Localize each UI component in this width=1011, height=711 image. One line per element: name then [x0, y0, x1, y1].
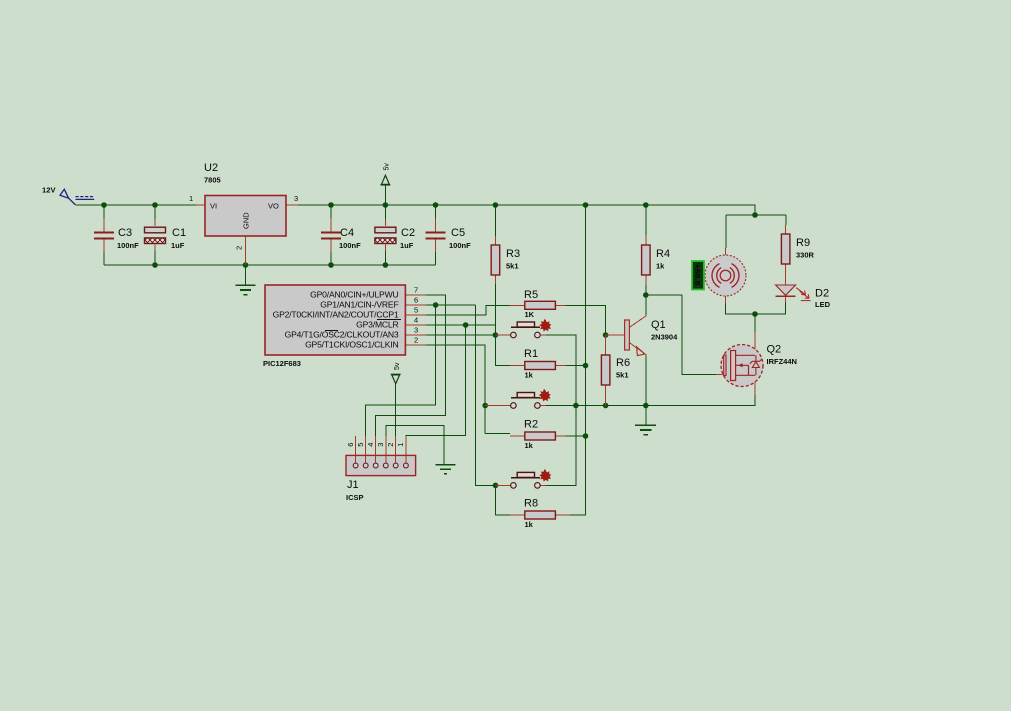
wire Q1 collector diagonal [629, 315, 646, 328]
resistor R3 [491, 245, 520, 275]
node R6 bottom [603, 403, 609, 409]
wire R9 branch down [785, 215, 787, 225]
wire R2 right link [566, 435, 586, 437]
wire GP1 branch to J1 pin5 [366, 305, 436, 436]
wire Q2 source stub [754, 375, 756, 395]
wires and components are appended below [76, 185, 786, 515]
wire R5 right to Q1 base junction [566, 305, 606, 335]
node C3 top [101, 202, 107, 208]
svg-text:6: 6 [346, 443, 355, 447]
wire R8 pin stubs [510, 514, 570, 516]
node R2 right [583, 433, 589, 439]
resistor R6 [601, 355, 630, 385]
svg-text:2N3904: 2N3904 [651, 333, 678, 342]
wire C2 verticals [384, 205, 386, 265]
svg-text:1k: 1k [656, 262, 665, 271]
svg-text:1: 1 [189, 194, 193, 203]
wire U2 pin3 stub [286, 204, 298, 206]
resistor R1 [524, 348, 555, 380]
push button SW1 [511, 319, 552, 338]
wire motor/R9 split rail [726, 214, 786, 216]
wire J1 pin stubs [356, 436, 406, 463]
push button SW2 [511, 389, 551, 408]
svg-text:Q1: Q1 [651, 319, 666, 331]
svg-text:J1: J1 [347, 479, 359, 491]
svg-text:330R: 330R [796, 251, 815, 260]
wire Q1 emitter down to ground rail [645, 355, 647, 406]
resistor R4 [642, 245, 670, 275]
svg-text:GP2/T0CKI/INT/AN2/COUT/CCP1: GP2/T0CKI/INT/AN2/COUT/CCP1 [273, 310, 399, 320]
svg-text:R8: R8 [524, 498, 538, 510]
svg-text:C4: C4 [340, 227, 354, 239]
display +88.8 [692, 261, 704, 290]
wire R3 bottom to GP4 row junction and R1 left [495, 284, 510, 366]
wire R2 pin stubs [510, 435, 566, 437]
wire ground stub below U2 [245, 265, 247, 285]
node R4 top [643, 202, 649, 208]
svg-text:100nF: 100nF [117, 241, 139, 250]
node R1 right [583, 363, 589, 369]
svg-text:+88.8: +88.8 [693, 264, 700, 286]
wire button3 junction to R8 left [496, 485, 511, 515]
transistor Q2 IRFZ44N (MOSFET) [721, 344, 797, 387]
wire C4 pin stubs [330, 218, 332, 252]
resistor R5 [524, 289, 555, 319]
transistor Q1 2N3904 [625, 319, 679, 356]
wire C3 verticals [103, 205, 105, 265]
wire motor pin stubs [725, 248, 727, 304]
wire C1 pin stubs [154, 219, 156, 251]
wire ground stub below Q1 [645, 406, 647, 425]
wire chip pin stubs 7..2 [405, 295, 426, 345]
svg-text:GP0/AN0/CIN+/ULPWU: GP0/AN0/CIN+/ULPWU [310, 290, 398, 300]
motor [705, 255, 746, 296]
svg-text:C3: C3 [118, 227, 132, 239]
svg-text:GND: GND [242, 212, 251, 229]
svg-text:GP3/MCLR: GP3/MCLR [356, 320, 398, 330]
svg-text:VI: VI [210, 202, 217, 211]
wire GP1 pin6 row [426, 304, 476, 306]
wire collector junction to Q2 gate [646, 295, 716, 375]
svg-text:5: 5 [356, 443, 365, 447]
svg-text:1uF: 1uF [171, 241, 185, 250]
wire Q1 emitter diagonal [629, 343, 646, 357]
node U2 gnd [243, 262, 249, 268]
wire R5 pin stubs [510, 304, 566, 306]
svg-text:U2: U2 [204, 162, 218, 174]
node +5V vertical top [583, 202, 589, 208]
wire 5v arrow no.2 stem to J1 pin2 [395, 384, 397, 436]
wire R4 top [645, 205, 647, 235]
ground near J1 [436, 465, 456, 474]
wire LED pin stubs [785, 277, 787, 302]
svg-text:R4: R4 [656, 248, 670, 260]
svg-text:ICSP: ICSP [346, 493, 364, 502]
node motor bottom / Q2 drain [752, 311, 758, 317]
wire +5V vertical to R1 R2 R8 right [570, 205, 586, 515]
resistor R9 [781, 234, 814, 264]
wire top rail left (12V to U2 pin1) [76, 204, 196, 206]
power terminal 12V [42, 186, 94, 205]
svg-text:1K: 1K [525, 310, 535, 319]
capacitor C3 [94, 227, 139, 250]
svg-text:2: 2 [414, 336, 418, 345]
wire C5 verticals [435, 205, 437, 265]
wire GP3 pin4 row [426, 324, 495, 326]
node C5 top [433, 202, 439, 208]
wire button3 stubs [496, 484, 547, 486]
ground below Q1 [635, 425, 656, 435]
svg-text:1k: 1k [525, 520, 534, 529]
svg-text:D2: D2 [815, 288, 829, 300]
svg-text:5k1: 5k1 [616, 371, 629, 380]
node button3 left [493, 483, 499, 489]
wire U2 pin1 stub [196, 204, 205, 206]
svg-text:R1: R1 [524, 348, 538, 360]
node button1 left [493, 332, 499, 338]
connector J1 ICSP [346, 443, 416, 502]
wire motor bottom link rail [726, 302, 786, 314]
wire R4 pin stubs [645, 235, 647, 285]
svg-text:GP5/T1CKI/OSC1/CLKIN: GP5/T1CKI/OSC1/CLKIN [305, 340, 398, 350]
svg-text:3: 3 [414, 326, 418, 335]
svg-text:1uF: 1uF [400, 241, 414, 250]
node R4 bottom / Q2 gate branch [643, 292, 649, 298]
svg-text:5k1: 5k1 [506, 262, 519, 271]
svg-text:6: 6 [414, 296, 418, 305]
node Q1 emitter ground [643, 403, 649, 409]
wire Q2 gate stub [716, 374, 724, 376]
svg-text:VO: VO [268, 202, 279, 211]
node button2 left [482, 403, 488, 409]
wire Q2 drain stub [754, 332, 756, 355]
wire R9 pin stubs [785, 225, 787, 285]
svg-text:5: 5 [414, 306, 418, 315]
svg-text:100nF: 100nF [339, 241, 361, 250]
svg-text:2: 2 [386, 443, 395, 447]
svg-text:C1: C1 [172, 227, 186, 239]
svg-text:3: 3 [376, 443, 385, 447]
svg-text:1k: 1k [525, 371, 534, 380]
svg-text:4: 4 [366, 443, 375, 447]
wire R1 pin stubs [510, 365, 566, 367]
wire R3 top [494, 205, 496, 236]
svg-text:2: 2 [235, 246, 244, 250]
capacitor C1 (electrolytic) [145, 227, 187, 250]
wire R4 bottom to collector junction [645, 285, 647, 316]
svg-text:C2: C2 [401, 227, 415, 239]
svg-text:1: 1 [396, 443, 405, 447]
wire R3 pin stubs [494, 236, 496, 284]
node 5v/C2 top [383, 202, 389, 208]
wire top rail right (U2 pin3 to right corner) [298, 205, 755, 215]
capacitor C4 [321, 227, 361, 250]
wire bottom capacitor rail [104, 264, 436, 266]
svg-text:IRFZ44N: IRFZ44N [767, 357, 797, 366]
wire R2 left [485, 433, 510, 435]
svg-text:1k: 1k [525, 441, 534, 450]
node motor/R9 split [752, 212, 758, 218]
svg-text:PIC12F683: PIC12F683 [263, 359, 301, 368]
svg-text:C5: C5 [451, 227, 465, 239]
wire button2 stubs [485, 405, 546, 407]
node C2 bottom [383, 262, 389, 268]
wire U2 pin2 stub [245, 236, 247, 265]
wire button2 junction down to R2 left [484, 406, 486, 434]
svg-text:7805: 7805 [204, 176, 221, 185]
svg-text:LED: LED [815, 300, 831, 309]
svg-text:GP4/T1G/OSC2/CLKOUT/AN3: GP4/T1G/OSC2/CLKOUT/AN3 [285, 330, 399, 340]
svg-text:R9: R9 [796, 237, 810, 249]
LED D2 [776, 285, 831, 309]
wire C1 verticals [154, 205, 156, 265]
svg-text:100nF: 100nF [449, 241, 471, 250]
node C1 bottom [152, 262, 158, 268]
node Q1 base / R6 top [603, 332, 609, 338]
svg-text:5v: 5v [384, 163, 391, 171]
wire ground rail (button2 row) [546, 395, 755, 406]
power 5v arrow (top rail) [381, 175, 391, 185]
wire GP4 pin3 row to button1 [426, 334, 495, 336]
resistor R2 [524, 419, 555, 451]
wire MCLR branch to J1 pin1 [406, 325, 466, 436]
svg-text:R2: R2 [524, 419, 538, 431]
node MCLR branch [463, 322, 469, 328]
ground below U2 [236, 285, 256, 295]
wire GP0 pin7 to J1 pin4 [376, 295, 446, 436]
wire R6 pin stubs [605, 335, 607, 406]
capacitor C2 (electrolytic) [375, 227, 415, 250]
push button SW3 [511, 469, 552, 488]
capacitor C5 [426, 227, 472, 250]
svg-text:5v: 5v [394, 362, 401, 370]
wire Q2 drain from link rail [754, 314, 756, 332]
wire GP2 pin5 jog to R5 [426, 305, 510, 315]
regulator U2 7805 [189, 162, 298, 250]
node C1 top [152, 202, 158, 208]
wire J1 pin3 to ground [386, 426, 444, 465]
wire C2 pin stubs [384, 219, 386, 251]
wire C4 verticals [330, 205, 332, 265]
svg-text:4: 4 [414, 316, 418, 325]
node R3 top [493, 202, 499, 208]
wire GP1 branch down to button3 row [476, 305, 496, 485]
svg-text:GP1/AN1/CIN-/VREF: GP1/AN1/CIN-/VREF [320, 300, 398, 310]
microcontroller U1 PIC12F683 [263, 285, 418, 368]
svg-text:7: 7 [414, 286, 418, 295]
svg-text:3: 3 [294, 194, 298, 203]
resistor R8 [524, 498, 555, 530]
wire motor branch down [725, 215, 727, 248]
wire R1 right link [566, 365, 586, 367]
wire button1 stubs [495, 334, 546, 336]
power 5v arrow (above J1) [391, 374, 401, 383]
wire Q1 base stub [606, 334, 625, 336]
wire C3 pin stubs [103, 218, 105, 252]
svg-text:12V: 12V [42, 186, 56, 195]
svg-text:R6: R6 [616, 357, 630, 369]
node gnd rail / button1 vertical [573, 403, 579, 409]
node C4 bottom [328, 262, 334, 268]
svg-text:R5: R5 [524, 289, 538, 301]
node C4 top [328, 202, 334, 208]
wire GP5 pin2 to button2 junction [426, 345, 485, 406]
wire button1 right down to button3 right [546, 335, 576, 485]
svg-text:R3: R3 [506, 248, 520, 260]
svg-text:Q2: Q2 [767, 344, 782, 356]
wire 5v arrow no.1 stem [384, 185, 386, 205]
wire C5 pin stubs [435, 218, 437, 252]
node GP1/J1 branch [433, 302, 439, 308]
